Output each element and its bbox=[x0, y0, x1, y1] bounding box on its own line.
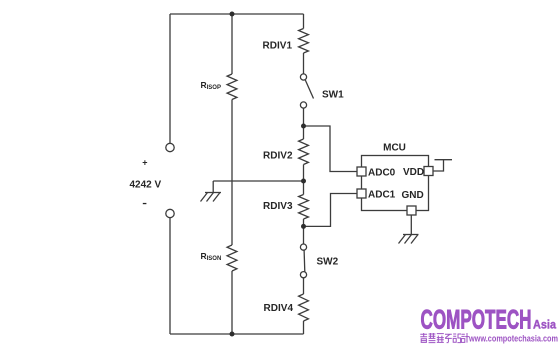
wire ground horizontal bbox=[213, 180, 303, 182]
wire node C to ADC1 bbox=[304, 194, 358, 227]
svg-text:SW1: SW1 bbox=[322, 90, 344, 101]
wire left branch lower bbox=[169, 218, 171, 334]
wire left branch upper bbox=[169, 14, 171, 143]
resistor RDIV2 bbox=[299, 139, 309, 165]
svg-text:4242 V: 4242 V bbox=[130, 180, 162, 191]
ground chassis left bbox=[201, 193, 222, 202]
wire ground stub bbox=[212, 181, 214, 193]
svg-text:RISON: RISON bbox=[201, 251, 222, 262]
node C junction bbox=[301, 224, 306, 229]
svg-text:MCU: MCU bbox=[383, 143, 406, 154]
switch SW1 bbox=[300, 74, 313, 108]
MCU U1 body bbox=[362, 156, 429, 211]
resistor RDIV4 bbox=[299, 294, 309, 321]
svg-text:ADC0: ADC0 bbox=[368, 168, 396, 179]
wire top bus bbox=[170, 13, 304, 15]
pin ADC1 bbox=[357, 189, 366, 198]
label minus sign bbox=[143, 203, 147, 204]
resistor RISON bbox=[227, 245, 237, 271]
wire RDIV2 to node B bbox=[303, 165, 305, 195]
svg-text:COMPOTECH: COMPOTECH bbox=[421, 305, 532, 335]
ground chassis MCU bbox=[399, 235, 419, 244]
svg-text:ADC1: ADC1 bbox=[368, 190, 396, 201]
node A junction bbox=[301, 124, 306, 129]
source V1 positive terminal bbox=[166, 143, 174, 151]
svg-text:RDIV4: RDIV4 bbox=[264, 303, 294, 314]
wire RDIV1 to SW1 bbox=[303, 53, 305, 74]
wire GND pin down bbox=[410, 215, 412, 235]
node B junction bbox=[301, 179, 306, 184]
svg-text:+: + bbox=[142, 157, 147, 167]
wire middle branch middle bbox=[231, 100, 233, 246]
pin VDD bbox=[424, 167, 433, 176]
svg-text:GND: GND bbox=[402, 190, 424, 201]
svg-text:www.compotechasia.com: www.compotechasia.com bbox=[468, 334, 558, 345]
wire RDIV4 to bottom bus bbox=[303, 321, 305, 334]
pin GND bbox=[407, 206, 416, 215]
resistor RDIV3 bbox=[299, 195, 309, 220]
node junction bottom bus bbox=[230, 332, 235, 337]
switch SW2 bbox=[300, 244, 306, 278]
svg-text:Asia: Asia bbox=[533, 320, 557, 332]
pin ADC0 bbox=[357, 167, 366, 176]
resistor RISOP bbox=[227, 74, 237, 100]
wire right branch top bbox=[303, 14, 305, 29]
wire middle branch lower bbox=[231, 271, 233, 334]
wire node A to ADC0 bbox=[304, 126, 358, 172]
svg-text:RDIV1: RDIV1 bbox=[263, 41, 293, 52]
resistor RDIV1 bbox=[299, 29, 309, 54]
wire middle branch upper bbox=[231, 14, 233, 74]
node junction top bus bbox=[230, 12, 235, 17]
wire SW1 to node A bbox=[303, 108, 305, 139]
wire SW2 to RDIV4 bbox=[303, 278, 305, 294]
wire bottom bus bbox=[170, 333, 304, 335]
power rail VDD bar bbox=[435, 159, 453, 161]
wire RDIV3 to node C bbox=[303, 219, 305, 244]
svg-text:RISOP: RISOP bbox=[201, 80, 221, 91]
source V1 negative terminal bbox=[166, 209, 174, 217]
svg-text:RDIV2: RDIV2 bbox=[263, 151, 293, 162]
svg-text:RDIV3: RDIV3 bbox=[263, 201, 293, 212]
svg-text:VDD: VDD bbox=[403, 167, 424, 178]
logo chinese tagline 智慧電子設計 bbox=[420, 333, 469, 343]
svg-text:SW2: SW2 bbox=[317, 257, 339, 268]
wire VDD to power rail bbox=[433, 160, 444, 171]
